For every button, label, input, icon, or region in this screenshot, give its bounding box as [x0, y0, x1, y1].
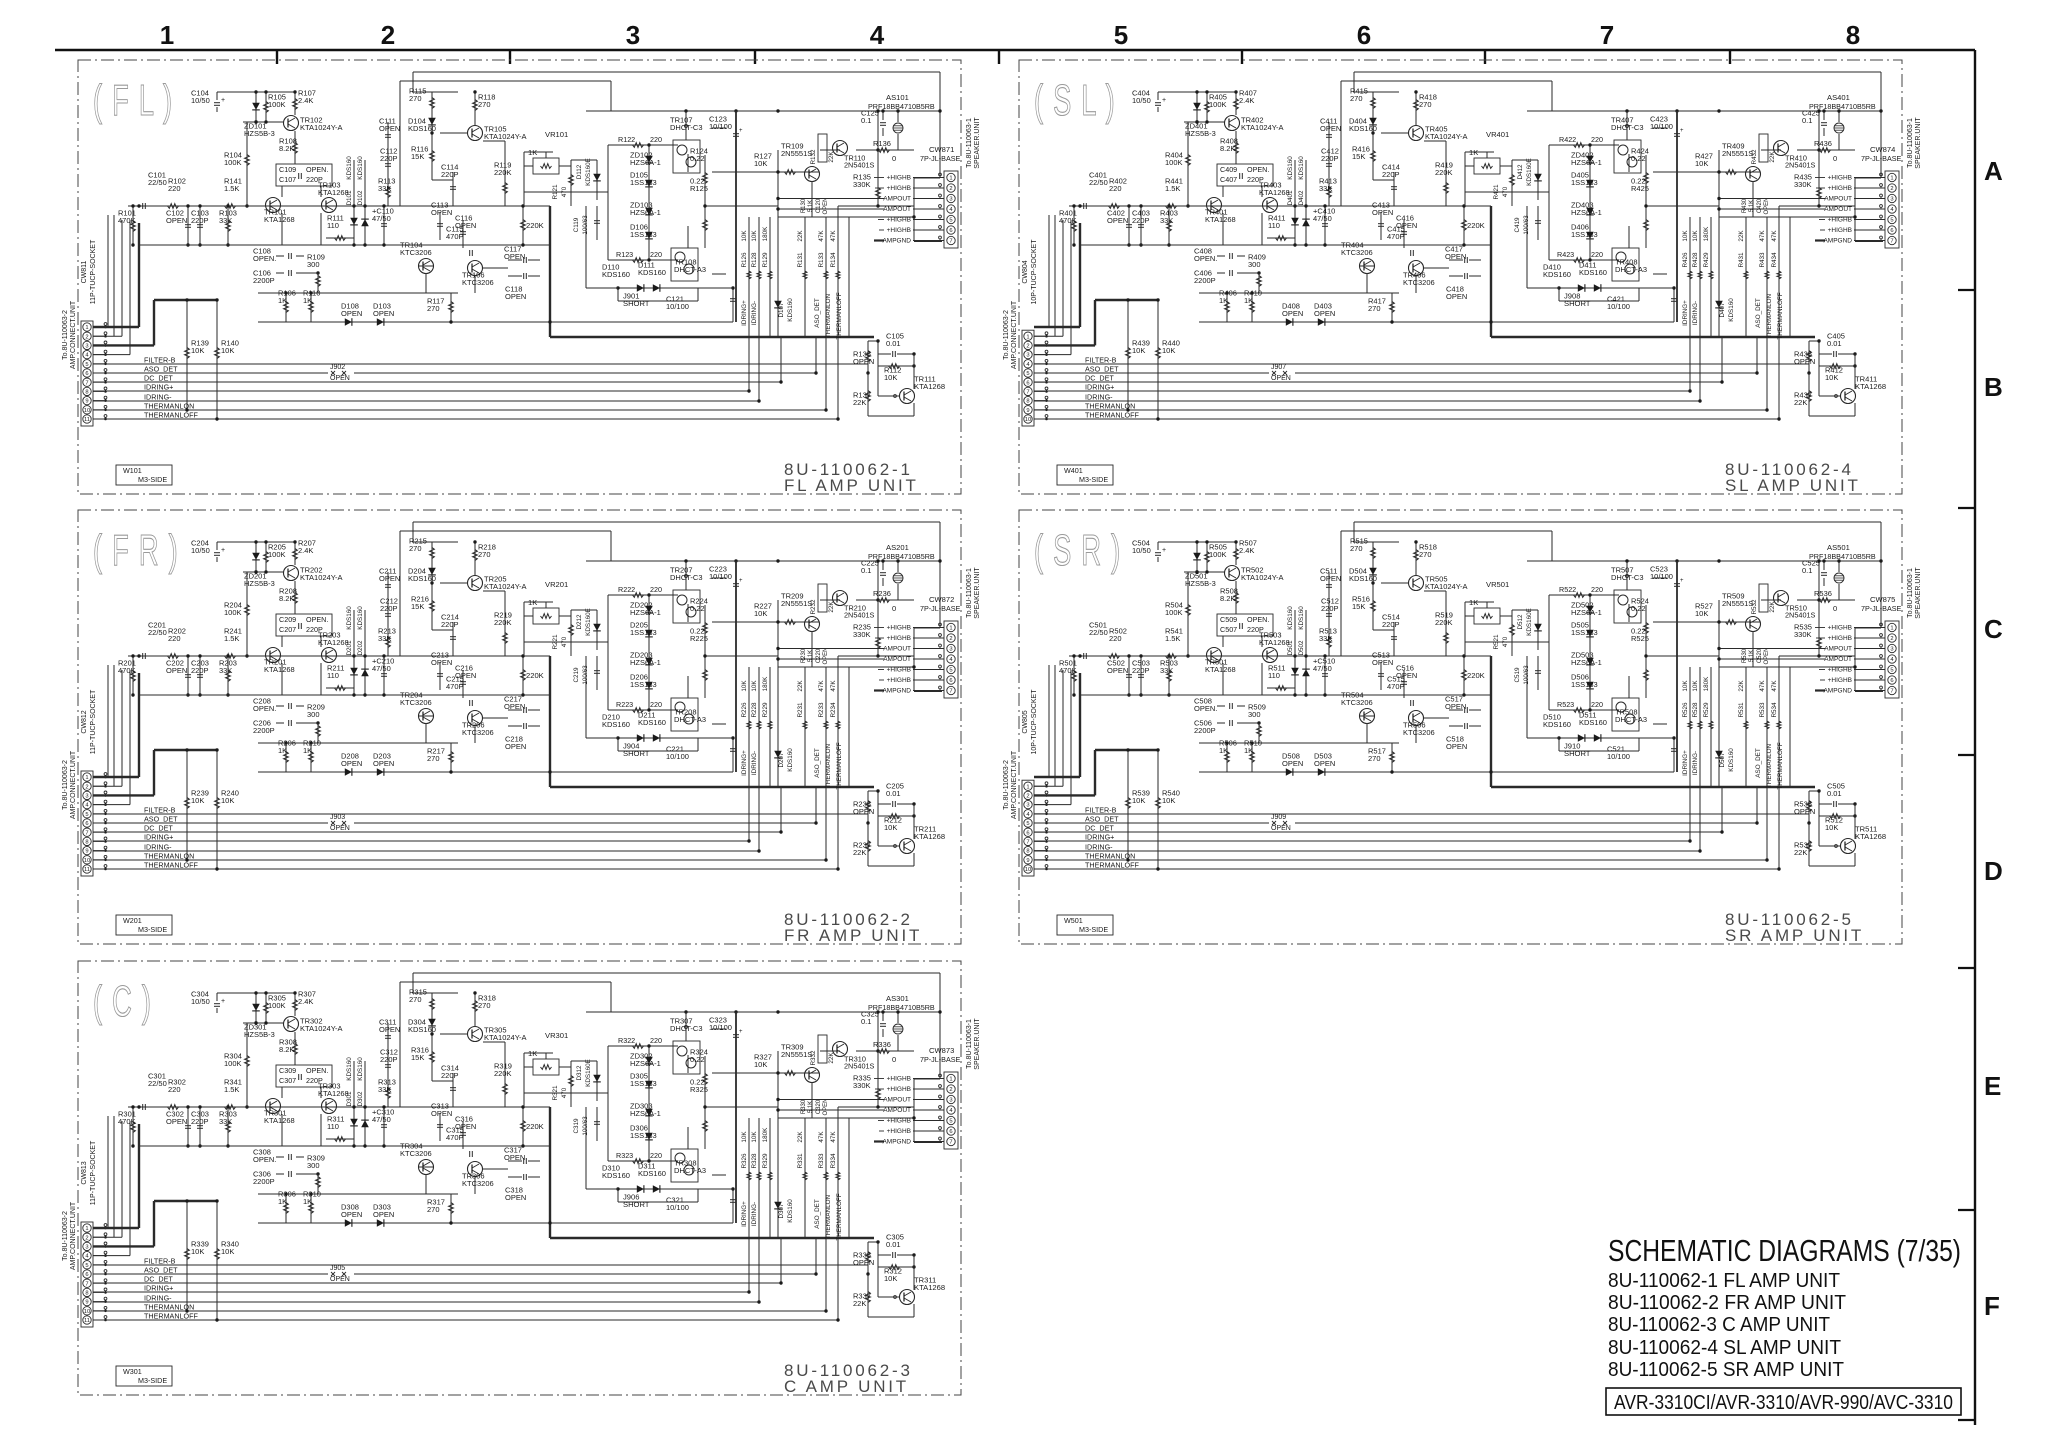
- wire output node: [1646, 655, 1719, 657]
- svg-text:10/100: 10/100: [666, 1203, 689, 1212]
- resistor R108 8.2K: [294, 131, 296, 164]
- svg-text:DC_DET: DC_DET: [144, 824, 173, 833]
- resistor R241 1.5K: [225, 654, 236, 659]
- svg-text:8U-110062-4 SL AMP UNIT: 8U-110062-4 SL AMP UNIT: [1608, 1336, 1841, 1359]
- diode D511 KDS160: [1594, 734, 1601, 742]
- svg-text:22K: 22K: [853, 848, 866, 857]
- wire connector bus (thick): [93, 326, 139, 328]
- svg-text:OPEN: OPEN: [1794, 357, 1815, 366]
- svg-text:47/50: 47/50: [1313, 664, 1332, 673]
- svg-text:CW875: CW875: [1870, 595, 1895, 604]
- resistor R111 110: [335, 236, 346, 241]
- wire mid-lower mesh: [1526, 206, 1528, 288]
- svg-text:1: 1: [85, 775, 88, 781]
- svg-text:KDS160E: KDS160E: [585, 158, 592, 186]
- wire diff pair legs: [281, 1087, 283, 1098]
- svg-text:220K: 220K: [1467, 671, 1485, 680]
- transistor TR205 KTA1024Y-A: [468, 576, 483, 591]
- svg-text:270: 270: [427, 754, 440, 763]
- diode D301: [353, 1061, 355, 1146]
- svg-text:5.1K: 5.1K: [808, 1101, 814, 1113]
- svg-text:OPEN: OPEN: [823, 197, 829, 214]
- svg-text:CW872: CW872: [929, 595, 954, 604]
- svg-text:6: 6: [949, 228, 952, 234]
- svg-text:+: +: [221, 547, 225, 554]
- svg-text:AMPGND: AMPGND: [1823, 238, 1852, 245]
- svg-text:KDS160: KDS160: [602, 720, 630, 729]
- transistor TR408 DHCT-A3: [1612, 248, 1639, 281]
- svg-text:1: 1: [160, 20, 174, 50]
- svg-text:11: 11: [84, 417, 90, 423]
- svg-text:C119: C119: [573, 217, 580, 232]
- svg-text:R123: R123: [616, 250, 633, 259]
- svg-text:+: +: [221, 97, 225, 104]
- resistor R102 220: [168, 204, 179, 209]
- svg-text:300: 300: [1248, 260, 1261, 269]
- svg-text:W301: W301: [123, 1367, 142, 1376]
- resistor R524 0.22: [1645, 605, 1647, 656]
- svg-text:47K: 47K: [818, 230, 825, 242]
- svg-text:SCHEMATIC DIAGRAMS (7/35): SCHEMATIC DIAGRAMS (7/35): [1608, 1233, 1961, 1268]
- diode D101: [353, 160, 355, 245]
- svg-text:ASO_DET: ASO_DET: [1755, 748, 1762, 778]
- svg-text:C219: C219: [573, 667, 580, 683]
- svg-text:5: 5: [85, 812, 88, 818]
- svg-text:KDS160: KDS160: [357, 1057, 364, 1081]
- resistor R315 270: [431, 993, 433, 1016]
- svg-text:220K: 220K: [494, 1069, 512, 1078]
- svg-text:10K: 10K: [751, 680, 758, 692]
- diode D108 OPEN: [345, 318, 352, 326]
- svg-text:KDS160: KDS160: [787, 748, 794, 772]
- svg-text:AMP.CONNECT.UNIT: AMP.CONNECT.UNIT: [1011, 300, 1018, 369]
- svg-text:OPEN: OPEN: [1107, 216, 1128, 225]
- diode D104 KDS160: [431, 115, 433, 133]
- capacitor C114 220P: [452, 172, 454, 206]
- svg-text:KTA1268: KTA1268: [1205, 215, 1236, 224]
- svg-text:C520: C520: [1757, 648, 1763, 663]
- zener ZD103 HZS6A-1: [645, 208, 653, 215]
- svg-text:D201: D201: [346, 640, 353, 656]
- resistor R110 1K: [310, 293, 312, 322]
- wire input bus: [128, 655, 550, 657]
- svg-text:R434: R434: [1771, 252, 1778, 268]
- capacitor C403 220P: [1140, 206, 1142, 245]
- svg-text:DHCT-A3: DHCT-A3: [1615, 265, 1647, 274]
- svg-text:R436: R436: [1814, 139, 1832, 148]
- diode D506 1SS133: [1586, 682, 1594, 689]
- resistor R539 10K: [1127, 750, 1129, 860]
- svg-text:6: 6: [1026, 380, 1029, 386]
- svg-text:THERMANLOFF: THERMANLOFF: [1777, 292, 1784, 339]
- svg-text:220: 220: [1591, 700, 1603, 709]
- svg-text:R326: R326: [741, 1153, 748, 1169]
- svg-text:OPEN: OPEN: [823, 647, 829, 664]
- svg-text:9: 9: [1026, 858, 1029, 864]
- svg-text:SPEAKER.UNIT: SPEAKER.UNIT: [974, 567, 981, 619]
- svg-text:KTA1024Y-A: KTA1024Y-A: [1241, 123, 1284, 132]
- jumper J904 SHORT: [618, 750, 698, 752]
- svg-text:15K: 15K: [1352, 152, 1365, 161]
- zener ZD301 HZS5B-3: [255, 993, 257, 1023]
- svg-text:+HIGHB: +HIGHB: [1828, 185, 1852, 192]
- svg-text:220P: 220P: [191, 1117, 209, 1126]
- svg-text:HZS6A-1: HZS6A-1: [630, 208, 661, 217]
- svg-text:KDS160E: KDS160E: [585, 608, 592, 636]
- resistor R412 10K: [1830, 364, 1841, 369]
- svg-text:100K: 100K: [1165, 158, 1183, 167]
- wire stair top-left: [413, 71, 940, 73]
- svg-text:R432: R432: [1751, 149, 1758, 165]
- svg-text:R136: R136: [873, 139, 891, 148]
- svg-text:470P: 470P: [446, 232, 464, 241]
- resistor R532 22K (rotated): [1759, 584, 1768, 612]
- svg-text:22K: 22K: [1794, 398, 1807, 407]
- wire vr row: [524, 151, 539, 153]
- svg-text:8: 8: [1026, 849, 1029, 855]
- svg-text:270: 270: [478, 100, 491, 109]
- resistor R439 10K: [1127, 300, 1129, 410]
- wire signal lines FILTER-B..THERMANLOFF: [93, 1264, 868, 1266]
- svg-text:HZS6A-1: HZS6A-1: [630, 1059, 661, 1068]
- svg-text:D302: D302: [357, 1091, 364, 1107]
- svg-text:47K: 47K: [1759, 230, 1766, 242]
- svg-text:AMPOUT: AMPOUT: [1824, 206, 1852, 213]
- svg-text:2: 2: [381, 20, 395, 50]
- svg-text:SHORT: SHORT: [623, 299, 650, 308]
- svg-text:2200P: 2200P: [1194, 726, 1216, 735]
- svg-text:AS501: AS501: [1827, 543, 1850, 552]
- svg-text:OPEN: OPEN: [1320, 124, 1341, 133]
- svg-text:C409: C409: [1220, 165, 1237, 174]
- svg-text:110: 110: [1268, 671, 1280, 680]
- svg-text:0.22: 0.22: [1631, 604, 1646, 613]
- svg-text:R228: R228: [751, 702, 758, 718]
- diode D204 KDS160: [431, 565, 433, 583]
- svg-text:300: 300: [307, 260, 320, 269]
- svg-text:CW813: CW813: [81, 1161, 88, 1184]
- resistor R127 10K: [785, 170, 796, 175]
- svg-text:R128: R128: [751, 252, 758, 268]
- svg-text:KTA1268: KTA1268: [318, 1089, 349, 1098]
- svg-text:SPEAKER.UNIT: SPEAKER.UNIT: [1915, 567, 1922, 619]
- wire drive row: [712, 621, 819, 623]
- svg-text:220: 220: [1109, 634, 1122, 643]
- resistor R424 0.22: [1645, 155, 1647, 206]
- svg-text:47/50: 47/50: [372, 664, 391, 673]
- svg-text:1SS133: 1SS133: [1571, 680, 1598, 689]
- svg-text:OPEN: OPEN: [1271, 375, 1291, 382]
- resistor R217 270: [450, 743, 452, 772]
- diode D202: [364, 610, 366, 695]
- svg-text:AMP.CONNECT.UNIT: AMP.CONNECT.UNIT: [70, 750, 77, 819]
- svg-text:10/100: 10/100: [709, 572, 732, 581]
- resistor R411 110: [1276, 236, 1287, 241]
- diode D307 KDS160: [777, 1191, 779, 1221]
- svg-text:10K: 10K: [1132, 796, 1145, 805]
- wire lower bus: [139, 244, 550, 246]
- svg-text:+HIGHB: +HIGHB: [887, 175, 911, 182]
- resistor R141 1.5K: [225, 204, 236, 209]
- amp unit C: [62, 961, 981, 1396]
- capacitor C102 OPEN: [187, 206, 189, 245]
- svg-text:KTA1268: KTA1268: [914, 832, 945, 841]
- svg-text:AVR-3310CI/AVR-3310/AVR-990/AV: AVR-3310CI/AVR-3310/AVR-990/AVC-3310: [1614, 1391, 1953, 1414]
- svg-text:1K: 1K: [1244, 296, 1253, 305]
- svg-text:To.8U-110063-1: To.8U-110063-1: [1907, 118, 1914, 168]
- transistor TR404 KTC3206: [1360, 259, 1375, 274]
- resistor R235 330K: [877, 628, 879, 656]
- transistor TR508 DHCT-A3: [1612, 698, 1639, 731]
- svg-text:FILTER-B: FILTER-B: [1085, 806, 1117, 815]
- svg-text:10K: 10K: [1695, 609, 1708, 618]
- svg-text:ASO_DET: ASO_DET: [144, 365, 178, 374]
- svg-text:47/50: 47/50: [372, 1115, 391, 1124]
- svg-text:9: 9: [1026, 408, 1029, 414]
- svg-text:330K: 330K: [1794, 630, 1812, 639]
- svg-text:C209: C209: [279, 615, 296, 624]
- svg-text:SHORT: SHORT: [1564, 299, 1591, 308]
- svg-text:R132: R132: [810, 149, 817, 165]
- resistor R427 10K: [1726, 170, 1737, 175]
- svg-text:47K: 47K: [1771, 230, 1778, 242]
- svg-text:3: 3: [1890, 197, 1893, 203]
- wire lower bus: [1080, 244, 1491, 246]
- diode D304 KDS160: [431, 1016, 433, 1034]
- svg-text:0.01: 0.01: [886, 789, 901, 798]
- resistor R535 330K: [1818, 628, 1820, 656]
- resistor 220K: [1463, 656, 1465, 695]
- resistor R437 22K: [1808, 373, 1810, 416]
- svg-text:+: +: [221, 998, 225, 1005]
- wire right output mesh: [838, 655, 914, 657]
- svg-text:OPEN: OPEN: [504, 252, 525, 261]
- svg-text:1.5K: 1.5K: [224, 1085, 239, 1094]
- svg-text:10/50: 10/50: [191, 96, 210, 105]
- svg-text:IDRING+: IDRING+: [1682, 750, 1689, 776]
- svg-text:DHCT-C3: DHCT-C3: [1611, 573, 1644, 582]
- svg-text:D512: D512: [1517, 614, 1524, 630]
- svg-text:CW871: CW871: [929, 145, 954, 154]
- svg-text:110: 110: [327, 221, 339, 230]
- svg-text:DC_DET: DC_DET: [144, 1275, 173, 1284]
- resistor R117 270: [450, 293, 452, 322]
- resistor R303 33K: [227, 1107, 229, 1146]
- svg-text:R329: R329: [762, 1153, 769, 1169]
- transistor TR302 KTA1024Y-A: [284, 1017, 299, 1032]
- capacitor C302 OPEN: [187, 1107, 189, 1146]
- svg-text:470P: 470P: [446, 682, 464, 691]
- svg-text:VR201: VR201: [545, 580, 568, 589]
- svg-text:+HIGHB: +HIGHB: [887, 1128, 911, 1135]
- capacitor C103 220P: [199, 206, 201, 245]
- svg-text:R528: R528: [1692, 702, 1699, 718]
- svg-text:IDRING-: IDRING-: [1692, 751, 1699, 775]
- svg-text:HZS6A-1: HZS6A-1: [1571, 608, 1602, 617]
- svg-text:220K: 220K: [526, 221, 544, 230]
- resistor R323 220: [608, 1160, 678, 1162]
- svg-text:5: 5: [85, 1263, 88, 1269]
- svg-text:R532: R532: [1751, 599, 1758, 615]
- svg-text:OPEN: OPEN: [1107, 666, 1128, 675]
- resistor R322 220: [608, 1045, 678, 1047]
- jumper J906 SHORT: [618, 1201, 698, 1203]
- jumper J908 SHORT: [1559, 300, 1639, 302]
- capacitor C211 OPEN: [387, 572, 389, 602]
- svg-text:ASO_DET: ASO_DET: [814, 298, 821, 328]
- wire input bus: [1069, 655, 1491, 657]
- svg-text:HZS6A-1: HZS6A-1: [1571, 658, 1602, 667]
- svg-text:10/100: 10/100: [1607, 302, 1630, 311]
- svg-text:( C ): ( C ): [93, 976, 152, 1025]
- svg-text:180K: 180K: [1703, 676, 1710, 692]
- resistor R502 220: [1109, 654, 1120, 659]
- transistor TR501 KTA1268: [1207, 648, 1222, 663]
- svg-text:IDRING+: IDRING+: [144, 383, 173, 392]
- svg-text:+HIGHB: +HIGHB: [887, 667, 911, 674]
- svg-text:AMPGND: AMPGND: [882, 238, 911, 245]
- wire mid links: [1359, 265, 1375, 267]
- wire connector bus (thick): [93, 776, 139, 778]
- capacitor C212 220P: [387, 602, 389, 628]
- svg-text:M3-SIDE: M3-SIDE: [1079, 925, 1108, 934]
- wire mid-lower mesh: [1526, 656, 1528, 738]
- resistor R213 33K: [387, 628, 389, 656]
- transistor TR411 KTA1268: [1841, 389, 1856, 404]
- wire right verticals: [1689, 667, 1691, 787]
- resistor R105 100K: [265, 92, 267, 122]
- svg-text:1.5K: 1.5K: [1165, 184, 1180, 193]
- wire vr column: [523, 628, 525, 656]
- svg-text:KDS160: KDS160: [1728, 298, 1735, 322]
- svg-text:10K: 10K: [884, 1274, 897, 1283]
- svg-text:10K: 10K: [754, 609, 767, 618]
- svg-text:100K: 100K: [1209, 100, 1227, 109]
- svg-text:To.8U-110063-2: To.8U-110063-2: [62, 310, 69, 360]
- resistor R308 8.2K: [294, 1032, 296, 1065]
- resistor R540 10K: [1157, 750, 1159, 869]
- svg-text:+HIGHB: +HIGHB: [1828, 677, 1852, 684]
- connector CW811 11P-TUCP-SOCKET: [81, 321, 93, 426]
- wire drive row: [712, 1072, 819, 1074]
- svg-text:10K: 10K: [1692, 230, 1699, 242]
- svg-text:6: 6: [949, 678, 952, 684]
- resistor R239 10K: [186, 750, 188, 860]
- svg-text:100K: 100K: [1165, 608, 1183, 617]
- marker W401 M3-SIDE box: [1057, 465, 1113, 485]
- transistor TR308 DHCT-A3: [671, 1149, 698, 1182]
- svg-text:KDS160: KDS160: [346, 1057, 353, 1081]
- svg-text:2N5551S: 2N5551S: [781, 1050, 812, 1059]
- diode D502: [1305, 610, 1307, 695]
- wire mid-lower mesh: [585, 656, 587, 738]
- svg-text:+HIGHB: +HIGHB: [887, 677, 911, 684]
- svg-text:DHCT-C3: DHCT-C3: [670, 573, 703, 582]
- diode D311 KDS160: [653, 1185, 660, 1193]
- svg-text:22K: 22K: [797, 1131, 804, 1143]
- svg-text:270: 270: [1419, 100, 1432, 109]
- svg-text:+HIGHB: +HIGHB: [887, 1086, 911, 1093]
- wire top right: [1761, 599, 1781, 601]
- svg-text:1K: 1K: [278, 1197, 287, 1206]
- wire lower-right link: [1809, 340, 1819, 342]
- svg-text:KTA1024Y-A: KTA1024Y-A: [1425, 582, 1468, 591]
- unit C border: [78, 961, 961, 1395]
- transistor TR204 KTC3206: [419, 709, 434, 724]
- svg-text:OPEN.: OPEN.: [253, 704, 276, 713]
- zener ZD501 HZS5B-3: [1196, 542, 1198, 572]
- wire lower bus: [1080, 694, 1491, 696]
- svg-text:2: 2: [1890, 186, 1893, 192]
- svg-text:1K: 1K: [303, 746, 312, 755]
- svg-text:ASO_DET: ASO_DET: [1755, 298, 1762, 328]
- svg-text:220: 220: [1109, 184, 1122, 193]
- svg-text:F: F: [1984, 1291, 2000, 1321]
- svg-text:7: 7: [85, 380, 88, 386]
- svg-text:220P: 220P: [1382, 170, 1400, 179]
- svg-text:330K: 330K: [853, 630, 871, 639]
- svg-text:180K: 180K: [762, 676, 769, 692]
- svg-text:C320: C320: [816, 1099, 822, 1114]
- zener ZD202 HZS6A-1: [648, 595, 650, 710]
- svg-text:+: +: [1162, 547, 1166, 554]
- svg-text:OPEN: OPEN: [1282, 759, 1303, 768]
- svg-text:AMP.CONNECT.UNIT: AMP.CONNECT.UNIT: [70, 300, 77, 369]
- svg-text:OPEN: OPEN: [373, 759, 394, 768]
- svg-text:R125: R125: [690, 184, 708, 193]
- svg-text:10K: 10K: [751, 1131, 758, 1143]
- svg-text:470P: 470P: [1387, 682, 1405, 691]
- svg-text:OPEN.: OPEN.: [253, 1155, 276, 1164]
- svg-text:FR AMP UNIT: FR AMP UNIT: [784, 926, 922, 945]
- svg-text:4: 4: [85, 353, 89, 359]
- svg-text:PRF18BB4710B5RB: PRF18BB4710B5RB: [868, 552, 935, 561]
- svg-text:OPEN: OPEN: [1445, 252, 1466, 261]
- capacitor box C109/C107: [1217, 614, 1273, 636]
- svg-text:3: 3: [85, 1245, 88, 1251]
- capacitor C321 10/100: [732, 1189, 734, 1213]
- svg-text:2.4K: 2.4K: [298, 546, 313, 555]
- svg-text:OPEN: OPEN: [330, 1276, 350, 1283]
- svg-text:8.2K: 8.2K: [279, 594, 294, 603]
- svg-text:( F L ): ( F L ): [93, 75, 173, 124]
- svg-text:OPEN: OPEN: [166, 1117, 187, 1126]
- svg-text:DC_DET: DC_DET: [144, 374, 173, 383]
- svg-text:+HIGHB: +HIGHB: [887, 227, 911, 234]
- transistor TR507 DHCT-C3: [1614, 590, 1641, 623]
- svg-text:2: 2: [85, 1235, 88, 1241]
- svg-text:220: 220: [650, 135, 662, 144]
- svg-text:OPEN: OPEN: [373, 309, 394, 318]
- svg-text:10K: 10K: [1162, 796, 1175, 805]
- diode D402: [1305, 160, 1307, 245]
- resistor R237 22K: [867, 823, 869, 866]
- resistor R139 10K: [186, 300, 188, 410]
- svg-text:R526: R526: [1682, 702, 1689, 718]
- svg-text:1: 1: [1026, 784, 1029, 790]
- svg-text:C319: C319: [573, 1118, 580, 1134]
- svg-text:8: 8: [85, 390, 88, 396]
- svg-text:KDS160: KDS160: [638, 1169, 666, 1178]
- resistor R208 8.2K: [294, 581, 296, 614]
- zener ZD403 HZS6A-1: [1586, 208, 1594, 215]
- svg-text:AMPOUT: AMPOUT: [883, 196, 911, 203]
- svg-text:OPEN: OPEN: [853, 357, 874, 366]
- svg-text:OPEN: OPEN: [1271, 825, 1291, 832]
- svg-text:KDS160: KDS160: [602, 1171, 630, 1180]
- resistor R425 0.22: [1645, 206, 1647, 248]
- svg-text:220P: 220P: [380, 604, 398, 613]
